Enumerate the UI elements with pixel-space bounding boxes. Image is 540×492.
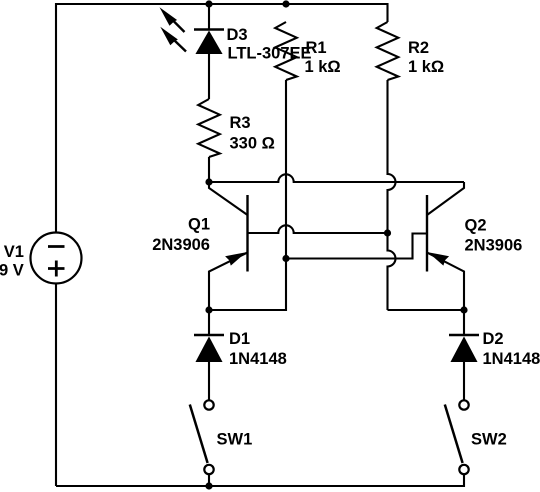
transistor Q1 emitter lead — [209, 253, 248, 311]
svg-text:1 kΩ: 1 kΩ — [305, 58, 341, 76]
wire Q2 base line with hop — [286, 234, 427, 259]
transistor Q2 emitter lead — [427, 253, 464, 311]
LED D3 emission arrow 1 — [160, 7, 185, 32]
wire collector cross line with hops — [209, 174, 464, 182]
svg-text:330 Ω: 330 Ω — [230, 134, 275, 152]
node bottom rail junction — [205, 482, 212, 489]
wire LED stub — [208, 4, 210, 30]
svg-text:2N3906: 2N3906 — [465, 237, 523, 255]
switch SW2 — [445, 400, 469, 474]
svg-text:D3: D3 — [227, 26, 248, 44]
wire top rail — [209, 4, 388, 22]
wire R2 branch to Q2 emitter — [388, 309, 465, 311]
svg-text:D1: D1 — [229, 330, 250, 348]
wire left rail upper — [56, 4, 209, 233]
node Q1 emitter junction — [205, 306, 212, 313]
transistor Q1 emitter arrow — [225, 252, 246, 265]
resistor R2 — [377, 22, 399, 80]
wire Q1 base line with hop — [248, 225, 388, 233]
svg-text:9 V: 9 V — [0, 262, 24, 280]
wire bottom rail — [56, 474, 464, 486]
diode D2 triangle — [451, 338, 476, 362]
resistor R1 — [275, 22, 297, 80]
svg-text:Q1: Q1 — [188, 216, 210, 234]
transistor Q2 emitter arrow — [428, 252, 449, 265]
LED D3 emission arrow 2 — [160, 27, 186, 52]
LED D3 triangle — [196, 32, 221, 54]
wire Q1 emitter to D1 — [208, 310, 210, 335]
svg-text:2N3906: 2N3906 — [152, 236, 210, 254]
diode D1 cathode bar — [194, 334, 224, 336]
wire R1 branch to Q1 emitter — [209, 259, 286, 311]
node Q1 base to R2 junction — [384, 229, 391, 236]
svg-text:SW2: SW2 — [471, 430, 507, 448]
svg-text:R1: R1 — [306, 39, 327, 57]
wire LED to R3 — [208, 54, 210, 100]
svg-text:Q2: Q2 — [465, 217, 487, 235]
wire SW1 to bottom rail — [208, 474, 210, 486]
diode D1 triangle — [196, 338, 221, 362]
diode D2 cathode bar — [449, 334, 479, 336]
node Q2 emitter junction — [460, 306, 467, 313]
svg-text:R2: R2 — [408, 39, 429, 57]
svg-text:1N4148: 1N4148 — [483, 350, 540, 368]
svg-text:R3: R3 — [230, 114, 251, 132]
wire R1 lower — [285, 80, 287, 259]
voltage source V1 — [31, 233, 82, 284]
wire Q2 emitter to D2 — [463, 310, 465, 335]
transistor Q2 collector lead — [427, 182, 464, 215]
node top R1 junction — [282, 0, 289, 7]
svg-text:V1: V1 — [4, 243, 24, 261]
svg-text:SW1: SW1 — [217, 430, 253, 448]
wire D2 to SW2 — [463, 362, 465, 401]
node collector junction A — [205, 178, 212, 185]
wire left rail lower — [55, 284, 57, 487]
wire R3 to collector node — [208, 157, 210, 182]
node top LED junction — [205, 0, 212, 7]
switch SW1 — [190, 400, 214, 474]
transistor Q2 base bar — [426, 195, 428, 272]
svg-text:1 kΩ: 1 kΩ — [408, 58, 444, 76]
resistor R3 — [198, 99, 220, 157]
svg-text:1N4148: 1N4148 — [229, 350, 287, 368]
wire R2 lower — [388, 80, 396, 310]
LED D3 cathode bar — [194, 28, 224, 30]
svg-text:D2: D2 — [483, 330, 504, 348]
transistor Q1 collector lead — [209, 182, 248, 215]
transistor Q1 base bar — [246, 195, 248, 272]
wire D1 to SW1 — [208, 362, 210, 401]
svg-text:LTL-307EE: LTL-307EE — [228, 45, 312, 63]
node Q2 base to R1 junction — [282, 255, 289, 262]
